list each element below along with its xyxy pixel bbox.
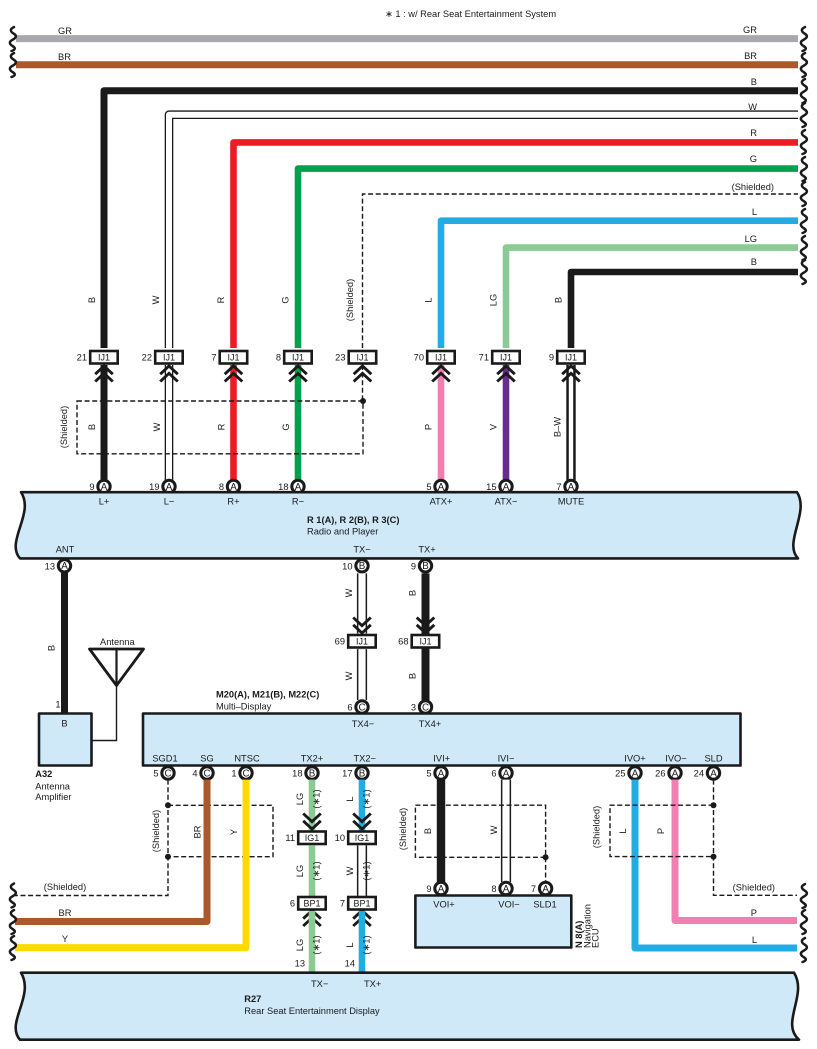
svg-text:L: L: [752, 207, 757, 217]
chevrons IJ1 22: [160, 366, 178, 382]
svg-text:L: L: [345, 942, 355, 947]
svg-text:B: B: [359, 768, 366, 779]
chevrons IJ1 7: [225, 366, 243, 382]
connector IJ1 21: [77, 351, 118, 364]
svg-text:B: B: [554, 297, 564, 303]
pin 9 B TX+: [411, 560, 432, 573]
svg-text:(∗1): (∗1): [312, 789, 322, 808]
connector IJ1 9: [549, 351, 585, 364]
svg-text:A: A: [61, 561, 68, 572]
wire LG TX2+ lower: [295, 911, 322, 973]
svg-text:TX2−: TX2−: [353, 754, 375, 764]
svg-text:8: 8: [219, 482, 224, 492]
wire B (pin 9 L+): [87, 77, 798, 348]
svg-text:B: B: [422, 561, 429, 572]
wire LG TX2+ upper: [295, 780, 322, 834]
svg-text:P: P: [656, 828, 666, 834]
junction dot SGD1 top: [165, 802, 171, 808]
svg-text:R+: R+: [227, 496, 239, 506]
svg-text:A32: A32: [35, 769, 52, 779]
svg-text:A: A: [438, 884, 445, 895]
junction dot SLD top: [711, 802, 717, 808]
svg-text:LG: LG: [489, 294, 499, 306]
svg-text:Amplifier: Amplifier: [35, 792, 71, 802]
svg-text:L: L: [345, 796, 355, 801]
svg-text:L: L: [752, 935, 757, 945]
svg-text:Y: Y: [229, 829, 239, 835]
wavy end L right bottom: [801, 938, 807, 962]
svg-text:B: B: [423, 828, 433, 834]
wire Y NTSC: [15, 780, 246, 948]
svg-text:IG1: IG1: [305, 833, 320, 843]
connector IJ1 68: [398, 635, 439, 648]
junction dot SLD bottom: [711, 854, 717, 860]
svg-text:C: C: [358, 702, 365, 713]
wire L (pin 70 ATX+): [424, 207, 799, 348]
wavy end W right: [801, 103, 807, 127]
svg-text:TX2+: TX2+: [301, 754, 323, 764]
chevrons IJ1 8: [289, 366, 307, 382]
shielded drain lower: [362, 365, 364, 401]
svg-text:(Shielded): (Shielded): [151, 810, 161, 852]
wire B antenna: [47, 572, 65, 713]
chevrons up BP1 6: [303, 911, 321, 927]
connector IJ1 7: [211, 351, 247, 364]
svg-text:G: G: [281, 296, 291, 303]
junction dot SLD1: [543, 854, 549, 860]
pin 8 A R+: [219, 480, 240, 493]
svg-text:(Shielded): (Shielded): [345, 279, 355, 321]
svg-text:3: 3: [411, 703, 416, 713]
wavy end L right: [801, 209, 807, 233]
svg-text:R: R: [216, 296, 226, 303]
svg-text:L: L: [424, 297, 434, 302]
wire P IVO-: [656, 780, 797, 921]
navigation ECU N8 box: [415, 896, 600, 949]
chevrons IJ1 23: [354, 366, 372, 382]
pin 5 C SGD1: [153, 767, 174, 780]
wire B IVI+: [423, 780, 441, 882]
svg-text:W: W: [344, 588, 354, 597]
svg-text:C: C: [164, 768, 171, 779]
svg-text:R−: R−: [292, 496, 304, 506]
svg-text:LG: LG: [745, 234, 757, 244]
svg-text:IJ1: IJ1: [419, 637, 431, 647]
pin 17 B TX2-: [342, 767, 368, 780]
pin 15 A ATX-: [486, 480, 512, 493]
pin 26 A IVO-: [655, 767, 681, 780]
svg-text:A: A: [503, 884, 510, 895]
radio and player bus R1 R2 R3: [16, 492, 801, 558]
svg-text:IJ1: IJ1: [292, 353, 304, 363]
wire SGD1 shielded drain: [15, 780, 168, 896]
svg-text:C: C: [422, 702, 429, 713]
svg-text:(Shielded): (Shielded): [44, 882, 86, 892]
svg-text:W: W: [489, 825, 499, 834]
svg-text:IJ1: IJ1: [435, 353, 447, 363]
svg-text:BR: BR: [59, 908, 72, 918]
svg-text:LG: LG: [295, 865, 305, 877]
svg-text:(∗1): (∗1): [362, 861, 372, 880]
pin 18 B TX2+: [292, 767, 318, 780]
svg-text:4: 4: [192, 769, 197, 779]
svg-text:6: 6: [347, 703, 352, 713]
svg-text:P: P: [751, 908, 757, 918]
pin 10 B TX-: [342, 560, 368, 573]
svg-text:19: 19: [149, 482, 159, 492]
svg-text:13: 13: [45, 561, 55, 571]
multi-display bus: [143, 714, 741, 766]
svg-text:TX−: TX−: [311, 979, 328, 989]
svg-text:IVI+: IVI+: [433, 754, 450, 764]
svg-text:L: L: [618, 828, 628, 833]
wavy end GR right: [801, 27, 807, 51]
svg-text:A: A: [710, 768, 717, 779]
svg-text:IJ1: IJ1: [356, 353, 368, 363]
pin 7 A MUTE: [556, 480, 577, 493]
svg-text:(∗1): (∗1): [362, 935, 372, 954]
svg-text:15: 15: [486, 482, 496, 492]
wire W pin19 lower: [165, 365, 174, 480]
svg-text:7: 7: [340, 899, 345, 909]
chevrons IJ1 70: [432, 366, 450, 382]
svg-text:7: 7: [556, 482, 561, 492]
svg-text:8: 8: [276, 353, 281, 363]
pin 25 A IVO+: [615, 767, 641, 780]
wire SLD shielded drain: [714, 780, 798, 896]
svg-text:B: B: [408, 590, 418, 596]
svg-text:24: 24: [694, 769, 704, 779]
svg-text:B: B: [87, 297, 97, 303]
svg-text:B–W: B–W: [553, 417, 563, 437]
pin 9 A L+: [89, 480, 110, 493]
pin 13 A ANT: [45, 560, 71, 573]
svg-text:IJ1: IJ1: [227, 353, 239, 363]
wavy end SLD right bottom: [801, 884, 807, 908]
wire W TX2- middle: [345, 845, 372, 897]
svg-text:B: B: [359, 561, 366, 572]
pin 24 A SLD: [694, 767, 720, 780]
svg-text:18: 18: [278, 482, 288, 492]
svg-text:ECU: ECU: [591, 928, 601, 948]
wire W TX- lower: [344, 649, 362, 700]
wire G (pin 18 R-): [281, 154, 799, 348]
svg-text:9: 9: [89, 482, 94, 492]
svg-text:SG: SG: [200, 754, 213, 764]
svg-text:(Shielded): (Shielded): [398, 808, 408, 850]
rear seat entertainment display bus R27: [16, 973, 799, 1040]
svg-text:LG: LG: [295, 793, 305, 805]
svg-text:TX+: TX+: [364, 979, 381, 989]
svg-text:IVI−: IVI−: [498, 754, 515, 764]
pin 3 C TX4+: [411, 701, 432, 714]
wavy end P right bottom: [801, 910, 807, 934]
wavy end R right: [801, 130, 807, 154]
svg-text:TX+: TX+: [418, 545, 435, 555]
svg-text:ATX+: ATX+: [430, 496, 453, 506]
svg-text:7: 7: [211, 353, 216, 363]
svg-text:C: C: [242, 768, 249, 779]
svg-text:13: 13: [295, 959, 305, 969]
svg-text:25: 25: [615, 769, 625, 779]
wire R (pin 8 R+): [216, 128, 798, 348]
svg-text:R27: R27: [244, 994, 261, 1004]
shield box row1: [59, 401, 363, 454]
svg-text:W: W: [151, 295, 161, 304]
svg-text:69: 69: [335, 637, 345, 647]
svg-text:IJ1: IJ1: [565, 353, 577, 363]
svg-text:G: G: [750, 154, 757, 164]
svg-text:BR: BR: [58, 52, 71, 62]
wire B TX+ upper: [408, 573, 426, 635]
svg-text:(∗1): (∗1): [312, 861, 322, 880]
connector IJ1 23: [335, 351, 376, 364]
svg-text:NTSC: NTSC: [234, 754, 260, 764]
svg-text:SLD1: SLD1: [533, 900, 556, 910]
svg-text:B: B: [87, 424, 97, 430]
svg-text:BP1: BP1: [353, 899, 370, 909]
svg-text:9: 9: [426, 884, 431, 894]
connector IJ1 8: [276, 351, 312, 364]
svg-text:6: 6: [491, 769, 496, 779]
connector BP1 7: [340, 897, 376, 910]
svg-text:R: R: [217, 423, 227, 430]
wire R pin8 lower: [230, 365, 237, 480]
svg-text:B: B: [408, 673, 418, 679]
shielded drain wire (pin 23): [345, 182, 798, 348]
svg-text:ATX−: ATX−: [495, 496, 518, 506]
wire B (pin 7 MUTE): [554, 257, 799, 348]
svg-text:7: 7: [531, 884, 536, 894]
wire G pin18 lower: [295, 365, 302, 480]
svg-text:MUTE: MUTE: [558, 496, 584, 506]
pin 6 C TX4-: [347, 701, 368, 714]
svg-text:M20(A), M21(B), M22(C): M20(A), M21(B), M22(C): [216, 690, 319, 700]
wavy end B2 right: [801, 260, 807, 284]
svg-text:L−: L−: [164, 496, 175, 506]
wire L IVO+: [618, 780, 797, 948]
svg-text:B: B: [61, 719, 67, 729]
chevrons IJ1 9: [562, 366, 580, 382]
svg-text:10: 10: [335, 833, 345, 843]
svg-text:22: 22: [142, 353, 152, 363]
chevrons IJ1 21: [95, 366, 113, 382]
svg-text:A: A: [672, 768, 679, 779]
wavy end Y left: [10, 936, 16, 960]
svg-text:1: 1: [55, 700, 60, 710]
svg-text:LG: LG: [295, 939, 305, 951]
pin 6 A IVI-: [491, 767, 512, 780]
svg-text:9: 9: [549, 353, 554, 363]
svg-text:26: 26: [655, 769, 665, 779]
svg-text:SGD1: SGD1: [152, 754, 177, 764]
wavy end shielded right: [801, 182, 807, 206]
wire GR: [16, 25, 798, 39]
svg-text:B: B: [309, 768, 316, 779]
svg-text:L+: L+: [99, 496, 110, 506]
wavy end BR left: [10, 53, 16, 77]
svg-text:B: B: [751, 257, 757, 267]
connector IJ1 22: [142, 351, 183, 364]
svg-text:C: C: [203, 768, 210, 779]
wavy end SGD1 left: [10, 884, 16, 908]
svg-text:(Shielded): (Shielded): [732, 182, 774, 192]
svg-text:5: 5: [426, 482, 431, 492]
svg-text:A: A: [632, 768, 639, 779]
junction dot SGD1 bottom: [165, 854, 171, 860]
svg-text:VOI−: VOI−: [498, 900, 519, 910]
wire B-W pin7 MUTE: [553, 365, 572, 480]
wavy end BR right: [801, 53, 807, 77]
svg-text:23: 23: [335, 353, 345, 363]
svg-text:(Shielded): (Shielded): [592, 806, 602, 848]
svg-text:17: 17: [342, 769, 352, 779]
svg-text:R 1(A), R 2(B), R 3(C): R 1(A), R 2(B), R 3(C): [307, 515, 399, 525]
chevrons down IG1 10: [353, 814, 371, 830]
connector BP1 6: [290, 897, 326, 910]
svg-text:Multi–Display: Multi–Display: [216, 702, 272, 712]
pin 19 A L-: [149, 480, 175, 493]
multi-display name: [216, 690, 319, 712]
chevrons down IJ1 68: [417, 618, 435, 634]
svg-text:(Shielded): (Shielded): [733, 883, 775, 893]
svg-text:VOI+: VOI+: [433, 900, 454, 910]
shield box row3 middle: [398, 805, 546, 857]
connector IJ1 70: [414, 351, 455, 364]
svg-text:5: 5: [426, 769, 431, 779]
wavy end B right: [801, 79, 807, 103]
pin 1 C NTSC: [231, 767, 252, 780]
svg-text:BR: BR: [193, 825, 203, 838]
connector IG1 10: [335, 832, 376, 845]
connector IG1 11: [285, 832, 325, 845]
svg-text:TX4−: TX4−: [352, 719, 374, 729]
wire W (pin 19 L-): [151, 102, 798, 348]
svg-text:6: 6: [290, 899, 295, 909]
pin 9 A VOI+: [426, 882, 447, 895]
svg-text:(Shielded): (Shielded): [59, 406, 69, 448]
svg-text:P: P: [424, 424, 434, 430]
svg-text:B: B: [47, 645, 57, 651]
svg-text:(∗1): (∗1): [362, 789, 372, 808]
chevrons up BP1 7: [353, 911, 371, 927]
svg-text:BP1: BP1: [303, 899, 320, 909]
svg-text:V: V: [489, 423, 499, 430]
svg-text:A: A: [542, 884, 549, 895]
svg-text:Radio and Player: Radio and Player: [307, 527, 378, 537]
pin 8 A VOI-: [491, 882, 512, 895]
wavy end GR left: [10, 27, 16, 51]
svg-text:G: G: [281, 423, 291, 430]
junction dot shield row1: [360, 398, 366, 404]
wire L TX2- upper: [345, 780, 372, 834]
wire P pin5 ATX+: [424, 365, 442, 480]
svg-text:ANT: ANT: [56, 545, 75, 555]
svg-text:Rear Seat Entertainment Displa: Rear Seat Entertainment Display: [244, 1006, 380, 1016]
antenna amplifier A32 box: [35, 714, 91, 803]
svg-text:TX4+: TX4+: [419, 719, 441, 729]
chevrons IJ1 71: [497, 366, 515, 382]
svg-text:8: 8: [491, 884, 496, 894]
svg-text:W: W: [344, 671, 354, 680]
svg-text:W: W: [152, 422, 162, 431]
svg-text:W: W: [345, 866, 355, 875]
svg-text:IVO−: IVO−: [665, 754, 686, 764]
svg-text:Antenna: Antenna: [100, 637, 135, 647]
antenna symbol: [90, 637, 144, 741]
wire SLD1 drain: [545, 857, 547, 882]
svg-text:A: A: [438, 768, 445, 779]
svg-text:5: 5: [153, 769, 158, 779]
svg-text:R: R: [750, 128, 757, 138]
wavy end G right: [801, 157, 807, 181]
svg-text:IJ1: IJ1: [500, 353, 512, 363]
wire W TX- upper: [344, 573, 362, 633]
svg-text:IG1: IG1: [355, 833, 370, 843]
svg-text:SLD: SLD: [704, 754, 722, 764]
svg-text:W: W: [748, 102, 757, 112]
svg-text:Antenna: Antenna: [35, 782, 70, 792]
wire LG (pin 71 ATX-): [489, 234, 799, 348]
svg-text:BR: BR: [744, 51, 757, 61]
svg-text:14: 14: [345, 959, 355, 969]
svg-text:∗ 1 : w/ Rear Seat Entertainme: ∗ 1 : w/ Rear Seat Entertainment System: [385, 9, 556, 19]
wire W IVI-: [489, 780, 506, 882]
svg-text:9: 9: [411, 561, 416, 571]
connector IJ1 69: [335, 635, 376, 648]
wire V pin15 ATX-: [489, 365, 507, 480]
svg-text:11: 11: [285, 833, 295, 843]
connector IJ1 71: [479, 351, 520, 364]
wire B TX+ lower: [408, 648, 426, 701]
svg-text:21: 21: [77, 353, 87, 363]
pin 18 A R-: [278, 480, 304, 493]
svg-text:A: A: [503, 768, 510, 779]
svg-text:GR: GR: [743, 25, 757, 35]
shield box row3 left: [168, 805, 273, 856]
shield box row3 right: [592, 805, 714, 856]
pin 7 A SLD1: [531, 882, 552, 895]
svg-text:IVO+: IVO+: [624, 754, 645, 764]
svg-text:B: B: [751, 77, 757, 87]
wavy end BR left: [10, 910, 16, 934]
svg-text:1: 1: [231, 769, 236, 779]
svg-text:(∗1): (∗1): [312, 935, 322, 954]
svg-text:IJ1: IJ1: [98, 353, 110, 363]
svg-text:IJ1: IJ1: [163, 353, 175, 363]
chevrons down IG1 11: [303, 814, 321, 830]
svg-text:18: 18: [292, 769, 302, 779]
chevrons down IJ1 69: [353, 618, 371, 634]
wire L TX2- lower: [345, 911, 372, 973]
svg-text:68: 68: [398, 637, 408, 647]
wire LG TX2+ middle: [295, 845, 322, 897]
wavy end LG right: [801, 236, 807, 260]
wire BR SG: [15, 780, 207, 922]
svg-text:GR: GR: [58, 26, 72, 36]
svg-text:Y: Y: [62, 934, 68, 944]
pin 4 C SG: [192, 767, 213, 780]
svg-text:10: 10: [342, 561, 352, 571]
svg-text:IJ1: IJ1: [356, 637, 368, 647]
wire B pin9 lower: [101, 365, 108, 480]
svg-text:70: 70: [414, 353, 424, 363]
pin 5 A IVI+: [426, 767, 447, 780]
wire BR: [16, 51, 798, 65]
pin 5 A ATX+: [426, 480, 447, 493]
svg-text:TX−: TX−: [353, 545, 370, 555]
svg-text:71: 71: [479, 353, 489, 363]
